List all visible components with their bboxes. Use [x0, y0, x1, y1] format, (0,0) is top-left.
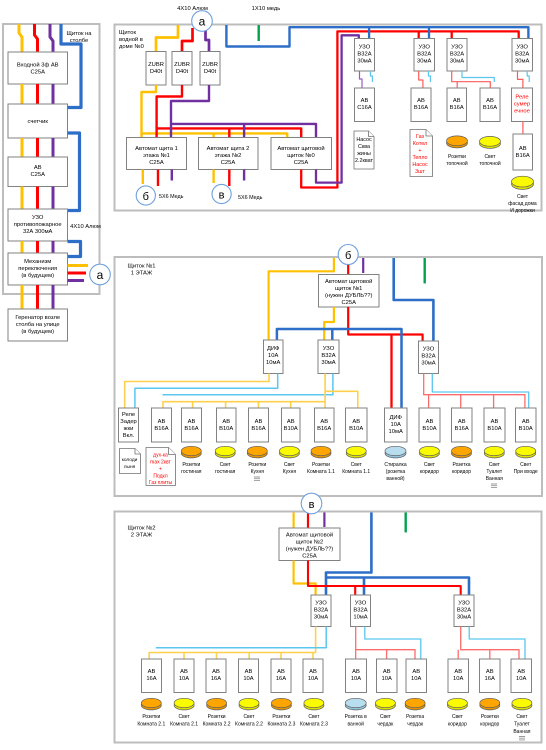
- wire cyan tail U1: [370, 71, 372, 82]
- svg-text:Стиралка: Стиралка: [384, 462, 406, 468]
- wire L3 purple top drop: [50, 24, 53, 52]
- svg-text:УЗО: УЗО: [451, 45, 463, 51]
- svg-text:Свет: Свет: [484, 154, 496, 160]
- panel box "Щиток №2 2 ЭТАЖ": [115, 512, 542, 743]
- svg-text:гостиная: гостиная: [181, 469, 202, 475]
- svg-text:ZUBR: ZUBR: [174, 62, 190, 68]
- wire red drop to lower DIF: [390, 335, 392, 408]
- svg-text:В32А: В32А: [357, 52, 371, 58]
- svg-text:УЗО: УЗО: [355, 601, 367, 607]
- svg-text:16А: 16А: [276, 676, 286, 682]
- breaker "АВ 16А" f2-5: [271, 659, 291, 693]
- svg-text:Реле: Реле: [515, 95, 528, 101]
- svg-text:Туалет: Туалет: [514, 722, 531, 728]
- svg-text:АВ: АВ: [519, 146, 527, 152]
- svg-text:В10А: В10А: [284, 426, 298, 432]
- wire red meter to AB: [36, 138, 39, 157]
- load "Свет Кухня": [279, 449, 299, 458]
- svg-text:В32А: В32А: [314, 608, 328, 614]
- load "Розетки Комната 1.1": [311, 449, 331, 458]
- svg-text:16А: 16А: [211, 676, 221, 682]
- panel box "Щиток №1 1 ЭТАЖ": [115, 257, 543, 496]
- svg-text:коридор: коридор: [452, 469, 471, 475]
- svg-text:УЗО: УЗО: [359, 45, 371, 51]
- panel box "Щиток водной в доме №0": [115, 25, 542, 211]
- breaker "АВ В16А" f1-9: [452, 408, 473, 442]
- svg-text:УЗО: УЗО: [516, 45, 528, 51]
- svg-text:10А: 10А: [268, 353, 278, 359]
- relay box "Реле Задержки Вкл.": [119, 408, 139, 442]
- svg-text:Ванная: Ванная: [486, 476, 503, 482]
- wire purple UZO to switch: [52, 241, 55, 253]
- load "Розетки Кухня": [247, 449, 267, 458]
- surge protector ZUBR3: [200, 52, 220, 86]
- load "Свет Комната 2.2": [239, 701, 259, 710]
- wire green stub: [424, 258, 426, 283]
- svg-text:С25А: С25А: [30, 172, 45, 178]
- svg-text:32А 300мА: 32А 300мА: [23, 229, 53, 235]
- wire L1 yellow top drop: [19, 24, 22, 52]
- svg-text:АВ: АВ: [180, 669, 188, 675]
- breaker "АВ 10А" f2-6: [303, 659, 323, 693]
- wire purple to meter: [52, 84, 55, 104]
- wire blue feed floor2: [326, 513, 469, 596]
- wire red stub below breaker1: [157, 170, 159, 187]
- svg-text:АВ: АВ: [486, 98, 494, 104]
- svg-text:С25А: С25А: [294, 160, 309, 166]
- svg-text:АВ: АВ: [383, 669, 391, 675]
- svg-text:УЗО: УЗО: [423, 347, 435, 353]
- svg-text:+: +: [159, 467, 162, 473]
- svg-text:30мА: 30мА: [321, 360, 335, 366]
- breaker "АВ 16А" f2-3: [206, 659, 226, 693]
- breaker "Автомат щита 2 этажа №2 С25А": [199, 138, 259, 170]
- svg-text:водной в: водной в: [119, 36, 143, 43]
- svg-text:Газ плиты: Газ плиты: [149, 480, 173, 486]
- svg-text:10А: 10А: [243, 676, 253, 682]
- svg-text:Розетка: Розетка: [452, 462, 470, 468]
- svg-text:1X10 медь: 1X10 медь: [252, 6, 281, 12]
- wire red stub to node a: [68, 272, 87, 275]
- RCD right "УЗО В32А 30мА": [419, 341, 439, 374]
- svg-text:переключения: переключения: [18, 266, 57, 272]
- wire blue bus row2: [277, 329, 402, 408]
- svg-text:Геренатор возле: Геренатор возле: [15, 315, 60, 321]
- load "Свет Комната 2.3": [304, 701, 324, 710]
- svg-text:лыня: лыня: [124, 465, 136, 470]
- load "Свет фасад дома И дорожки": [512, 179, 534, 190]
- wire purple stub below breaker1: [171, 170, 173, 181]
- svg-text:Тепло: Тепло: [412, 155, 427, 161]
- RCD f2 "УЗО В32А 30мА" (3): [454, 595, 474, 627]
- svg-text:Механизм: Механизм: [24, 259, 51, 265]
- svg-text:4X10 Алюм: 4X10 Алюм: [70, 224, 101, 230]
- svg-text:гостиная: гостиная: [215, 469, 236, 475]
- svg-text:В32А: В32А: [321, 353, 335, 359]
- svg-text:В32А: В32А: [417, 52, 431, 58]
- svg-text:2.2кват: 2.2кват: [355, 158, 374, 164]
- svg-text:топочной: топочной: [446, 160, 468, 167]
- wire red feed from node b: [347, 264, 349, 275]
- svg-text:В16А: В16А: [154, 426, 168, 432]
- wire red UZO to switch: [36, 241, 39, 253]
- svg-text:б: б: [345, 250, 351, 262]
- svg-text:D40t: D40t: [204, 69, 217, 75]
- wire yellow stub to node a: [68, 264, 89, 267]
- RCD U2 "УЗО В32А 30мА": [414, 39, 435, 72]
- document "колоди лыня": [120, 449, 141, 474]
- breaker "Автомат щитовой щиток №0 С25А": [271, 138, 332, 170]
- svg-text:И дорожки: И дорожки: [510, 208, 535, 214]
- svg-text:Розетки: Розетки: [448, 154, 466, 160]
- RCD U3 "УЗО В32А 30мА": [447, 39, 467, 72]
- svg-text:В10А: В10А: [519, 426, 533, 432]
- svg-text:10А: 10А: [391, 422, 401, 428]
- svg-text:Розетки: Розетки: [142, 714, 160, 720]
- load "Стиралка (розетка ванной)": [385, 449, 406, 458]
- svg-text:Свет: Свет: [489, 462, 501, 468]
- svg-text:щиток №0: щиток №0: [287, 153, 314, 159]
- svg-text:АВ: АВ: [454, 669, 462, 675]
- svg-text:Котел: Котел: [413, 141, 427, 147]
- svg-text:ZUBR: ZUBR: [148, 62, 164, 68]
- svg-text:30мА: 30мА: [357, 59, 371, 65]
- svg-text:10А: 10А: [351, 676, 361, 682]
- svg-text:щиток №2: щиток №2: [296, 540, 323, 546]
- svg-text:в: в: [309, 499, 315, 511]
- load "Свет При входе": [516, 449, 536, 458]
- svg-text:Автомат щитовой: Автомат щитовой: [277, 145, 324, 152]
- breaker "АВ 10А" f2-7: [346, 659, 367, 693]
- load "Розетки Комната 2.1": [141, 701, 161, 710]
- svg-text:Розетки: Розетки: [182, 462, 200, 468]
- wire yellow from node a to ZUBR1: [156, 25, 178, 52]
- svg-text:Свет: Свет: [516, 714, 528, 720]
- breaker "АВ 16А" f2-1: [142, 659, 162, 693]
- wire blue drop UZO2: [428, 28, 430, 39]
- svg-text:10А: 10А: [308, 676, 318, 682]
- svg-text:Свет: Свет: [424, 462, 436, 468]
- load "Розетки гостиная": [181, 449, 201, 458]
- svg-text:АВ: АВ: [287, 419, 295, 425]
- svg-text:столба на улице: столба на улице: [16, 322, 60, 328]
- svg-text:(розетка: (розетка: [386, 469, 406, 475]
- node b (floor1): [338, 245, 358, 265]
- svg-text:С25А: С25А: [149, 160, 164, 166]
- svg-text:Свет: Свет: [520, 462, 532, 468]
- node v (floor2): [301, 493, 322, 514]
- svg-text:топочной: топочной: [479, 160, 501, 167]
- wire cyan tail bath group: [365, 627, 421, 660]
- svg-text:30мА: 30мА: [515, 59, 529, 65]
- breaker "АВ 10А" f2-12: [511, 659, 532, 693]
- svg-text:ванной: ванной: [347, 721, 364, 728]
- node v: [212, 184, 231, 203]
- svg-text:30мА: 30мА: [457, 615, 471, 621]
- svg-text:Кухня: Кухня: [283, 469, 297, 475]
- svg-text:Автомат щита 1: Автомат щита 1: [135, 146, 178, 152]
- svg-text:Автомат щита 2: Автомат щита 2: [207, 146, 250, 152]
- svg-text:Свет: Свет: [179, 714, 191, 720]
- svg-text:Автомат щитовой: Автомат щитовой: [325, 278, 372, 285]
- switch box "Механизм переключения (в будущем)": [8, 253, 68, 285]
- svg-text:10мА: 10мА: [266, 360, 280, 366]
- svg-text:Комната 2.3: Комната 2.3: [267, 722, 295, 728]
- breaker "АВ В10А" f1-7: [346, 408, 368, 442]
- svg-text:сумер: сумер: [514, 102, 530, 108]
- breaker "АВ В16А" f1-2: [182, 408, 202, 442]
- wire blue meter loop to UZO: [68, 133, 80, 211]
- breaker "АВ В10А" f1-5: [282, 408, 301, 442]
- breaker "АВ 16А" f2-11: [480, 659, 501, 693]
- svg-text:ванной): ванной): [386, 475, 404, 482]
- svg-text:В16А: В16А: [516, 153, 530, 159]
- svg-text:а: а: [97, 268, 104, 282]
- load "Розетка в ванной": [345, 701, 366, 710]
- svg-text:(нужен ДУБЛЬ??): (нужен ДУБЛЬ??): [325, 293, 373, 299]
- wire cyan tail U2: [428, 71, 430, 82]
- svg-text:1 ЭТАЖ: 1 ЭТАЖ: [131, 271, 153, 277]
- breaker "АВ В10А" f1-10: [484, 408, 505, 442]
- svg-text:В32А: В32А: [353, 608, 367, 614]
- svg-text:Реле: Реле: [122, 412, 135, 418]
- load "Розетка чердак": [405, 701, 425, 710]
- svg-text:Входной 3ф АВ: Входной 3ф АВ: [17, 62, 59, 69]
- svg-text:коридор: коридор: [480, 722, 499, 728]
- svg-text:АВ: АВ: [34, 165, 42, 171]
- wire cyan bus from center UZO: [163, 374, 333, 395]
- wire yellow switch to generator: [21, 285, 24, 309]
- svg-text:16А: 16А: [146, 676, 156, 682]
- svg-text:АВ: АВ: [245, 669, 253, 675]
- svg-text:АВ: АВ: [188, 419, 196, 425]
- svg-text:Розетка в: Розетка в: [345, 714, 367, 720]
- wire red breaker to bus: [348, 307, 422, 341]
- svg-text:АВ: АВ: [458, 419, 466, 425]
- svg-text:10мА: 10мА: [353, 615, 367, 621]
- wire purple stub below breaker2: [243, 170, 245, 181]
- wire purple meter to AB: [52, 138, 55, 157]
- breaker "АВ В16А" (light): [480, 88, 500, 122]
- breaker "Автомат щита 1 этажа №1 С25А": [127, 138, 187, 170]
- load "Розетки топочной": [447, 138, 468, 148]
- svg-text:В16А: В16А: [455, 426, 469, 432]
- wire red stub below breaker2: [228, 170, 230, 187]
- svg-text:Газ: Газ: [416, 134, 425, 140]
- svg-text:Подкл: Подкл: [153, 474, 167, 480]
- svg-text:(в будущем): (в будущем): [21, 329, 54, 335]
- svg-text:этажа №2: этажа №2: [215, 153, 242, 159]
- svg-text:АВ: АВ: [212, 669, 220, 675]
- svg-text:АВ: АВ: [486, 669, 494, 675]
- svg-text:30мА: 30мА: [417, 59, 431, 65]
- load "Розетки коридор" f2: [480, 701, 500, 710]
- wire yellow stub below breaker2: [212, 170, 214, 184]
- svg-text:Комната 1.1: Комната 1.1: [307, 469, 335, 475]
- load "Свет Туалет Ванная" f1: [484, 449, 504, 458]
- wire red feed from node v: [307, 513, 309, 528]
- svg-text:АВ: АВ: [417, 98, 425, 104]
- svg-text:жки: жки: [124, 426, 134, 432]
- document "Газ Котел + Тепло Насос 3шт": [410, 130, 433, 177]
- svg-text:Насос: Насос: [412, 162, 428, 168]
- load "Розетки Комната 2.3": [271, 701, 291, 710]
- svg-text:счетчик: счетчик: [28, 119, 49, 125]
- wire purple loop breaker0 to UZO1: [316, 35, 359, 182]
- svg-text:Свет: Свет: [284, 462, 296, 468]
- wire cyan tail corridor group: [469, 627, 525, 660]
- RCD center "УЗО В32А 30мА": [318, 340, 339, 374]
- svg-text:В32А: В32А: [421, 354, 435, 360]
- svg-text:УЗО: УЗО: [458, 601, 470, 607]
- svg-text:ДИФ: ДИФ: [267, 346, 280, 352]
- svg-text:5Х6 Медь: 5Х6 Медь: [238, 195, 263, 201]
- svg-text:Розетка: Розетка: [406, 714, 424, 720]
- breaker "АВ С25А": [8, 157, 68, 187]
- svg-text:10А: 10А: [382, 676, 392, 682]
- wire red switch to generator: [36, 285, 39, 309]
- wire yellow breaker2 to UZO1: [294, 561, 316, 596]
- svg-text:3шт: 3шт: [415, 169, 425, 175]
- svg-text:Щиток №2: Щиток №2: [127, 526, 155, 532]
- breaker "Автомат щитовой щиток №2 (нужен ДУБЛЬ??) С25А": [279, 528, 340, 561]
- svg-text:Розетки: Розетки: [272, 714, 290, 720]
- relay "Реле сумеречное": [512, 88, 533, 122]
- svg-text:колоди: колоди: [122, 458, 138, 463]
- svg-text:УЗО: УЗО: [315, 601, 327, 607]
- svg-text:АВ: АВ: [491, 419, 499, 425]
- load "Свет коридор" f2: [447, 701, 467, 710]
- svg-text:Розетки: Розетки: [208, 714, 226, 720]
- svg-text:30мА: 30мА: [314, 615, 328, 621]
- svg-text:30мА: 30мА: [421, 361, 435, 367]
- surge protector ZUBR1: [146, 52, 166, 86]
- load "Свет чердак": [375, 701, 395, 710]
- DIF breaker "ДИФ 10А 10мА" (row2): [264, 340, 284, 374]
- svg-text:В16А: В16А: [317, 426, 331, 432]
- svg-text:10А: 10А: [411, 676, 421, 682]
- breaker "АВ 10А" f2-4: [239, 659, 259, 693]
- wire purple stub floor2: [323, 513, 325, 528]
- wire yellow branch to AB B10A: [325, 391, 358, 408]
- svg-text:Свет: Свет: [220, 462, 232, 468]
- wire yellow breaker to center UZO: [324, 307, 334, 340]
- svg-text:АВ: АВ: [222, 419, 230, 425]
- wire red from node a to ZUBR2: [182, 28, 193, 52]
- svg-text:Розетки: Розетки: [481, 714, 499, 720]
- svg-text:30мА: 30мА: [450, 59, 464, 65]
- svg-text:2 ЭТАЖ: 2 ЭТАЖ: [131, 533, 153, 539]
- svg-text:Туалет: Туалет: [486, 469, 503, 475]
- breaker "Автомат щитовой щиток №1 (нужен ДУБЛЬ??) С25А": [319, 275, 380, 308]
- svg-text:коридор: коридор: [448, 722, 467, 728]
- RCD U4 "УЗО В32А 30мА": [512, 39, 533, 72]
- svg-text:щиток №1: щиток №1: [335, 286, 362, 292]
- wire yellow feed floor2: [293, 513, 295, 529]
- svg-text:16А: 16А: [485, 676, 495, 682]
- breaker "Входной 3ф АВ С25А": [8, 52, 68, 84]
- svg-text:АВ: АВ: [255, 419, 263, 425]
- svg-text:Комната 2.1: Комната 2.1: [137, 722, 165, 728]
- breaker "АВ 10А" f2-9: [406, 659, 427, 693]
- wire yellow bus from center UZO: [163, 374, 325, 409]
- load "Свет гостиная": [215, 449, 235, 458]
- breaker "АВ 10А" f2-10: [448, 659, 469, 693]
- wire red bus corridor group: [458, 627, 519, 660]
- svg-text:ечное: ечное: [514, 109, 530, 115]
- svg-text:АВ: АВ: [361, 98, 369, 104]
- svg-text:Вкл.: Вкл.: [123, 433, 135, 439]
- wire purple stub to node a: [68, 279, 85, 282]
- svg-text:Комната 2.3: Комната 2.3: [300, 722, 328, 728]
- load "Розетки Комната 2.2": [207, 701, 227, 710]
- breaker "АВ В16А" (boiler): [411, 88, 431, 122]
- load "Свет топочной": [480, 139, 501, 149]
- load "Свет Комната 1.1": [346, 449, 366, 458]
- svg-text:В10А: В10А: [422, 426, 436, 432]
- wire red U2 to AB: [419, 71, 423, 88]
- svg-text:С25А: С25А: [341, 300, 356, 306]
- svg-text:ДИФ: ДИФ: [389, 415, 402, 421]
- wire purple drop to breaker 2: [243, 124, 245, 138]
- svg-text:С25А: С25А: [30, 70, 45, 76]
- svg-text:УЗО: УЗО: [323, 346, 335, 352]
- svg-text:Насос: Насос: [356, 137, 372, 143]
- wire purple ZUBR3 to floor breakers bus: [171, 85, 316, 138]
- svg-text:Розетки: Розетки: [248, 462, 266, 468]
- wire yellow AB to UZO: [21, 187, 24, 210]
- svg-text:(нужен ДУБЛЬ??): (нужен ДУБЛЬ??): [286, 547, 334, 553]
- svg-text:Свет: Свет: [308, 714, 320, 720]
- svg-text:Комната 2.2: Комната 2.2: [203, 722, 231, 728]
- breaker "АВ 10А" f2-2: [174, 659, 194, 693]
- svg-text:Кухня: Кухня: [251, 469, 265, 475]
- svg-text:АВ: АВ: [522, 419, 530, 425]
- breaker "АВ В16А" f1-6: [315, 408, 335, 442]
- svg-text:АВ: АВ: [426, 419, 434, 425]
- breaker "АВ 10А" f2-8: [377, 659, 398, 693]
- svg-text:10мА: 10мА: [389, 429, 403, 435]
- wire yellow to meter: [21, 84, 24, 104]
- RCD U1 "УЗО В32А 30мА": [355, 39, 375, 72]
- svg-text:5Х6 Медь: 5Х6 Медь: [159, 194, 184, 200]
- wire red ZUBR2 to floor breakers bus: [157, 85, 302, 138]
- svg-text:АВ: АВ: [277, 669, 285, 675]
- svg-text:D40t: D40t: [150, 69, 163, 75]
- breaker "АВ В10А" f1-3: [217, 408, 237, 442]
- svg-text:жины: жины: [357, 151, 371, 157]
- wire blue feed to right UZO: [394, 258, 434, 341]
- wire purple U1 to AB C16A: [360, 71, 363, 88]
- wire red drop UZO2: [418, 32, 420, 39]
- wire yellow drop to breaker 2: [212, 133, 214, 137]
- svg-text:С25А: С25А: [221, 160, 236, 166]
- svg-text:Щиток на: Щиток на: [66, 31, 92, 37]
- surge protector ZUBR2: [172, 52, 192, 86]
- svg-text:доме №0: доме №0: [119, 44, 144, 50]
- wire red U4 to relay: [518, 71, 523, 88]
- svg-text:Комната 2.1: Комната 2.1: [170, 722, 198, 728]
- svg-text:Ванная: Ванная: [513, 729, 530, 735]
- wire green PE stub: [258, 25, 260, 41]
- wire cyan bus rooms: [156, 627, 326, 648]
- svg-text:С25А: С25А: [302, 554, 317, 560]
- svg-text:Автомат щитовой: Автомат щитовой: [286, 532, 333, 539]
- wire purple from node a to ZUBR3: [206, 30, 210, 52]
- svg-text:Щиток: Щиток: [119, 30, 136, 36]
- wire red AB to UZO: [36, 187, 39, 210]
- svg-text:+: +: [418, 148, 421, 154]
